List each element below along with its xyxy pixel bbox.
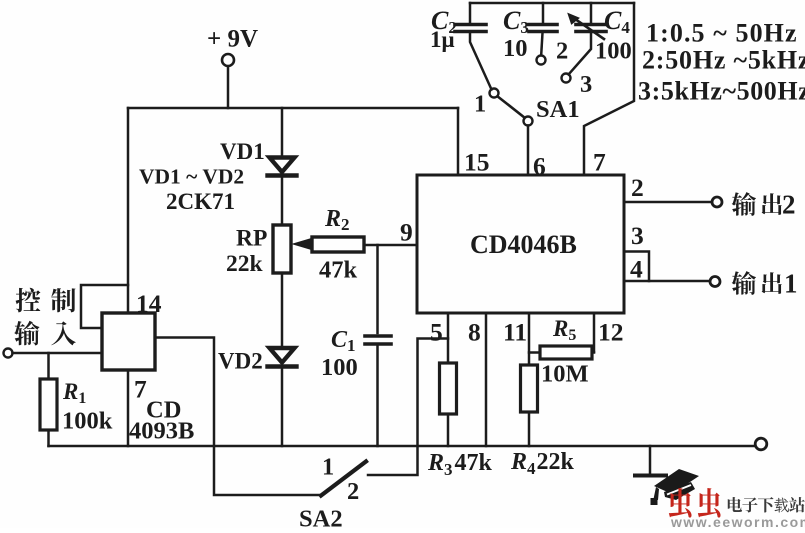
svg-text:10M: 10M <box>541 361 589 388</box>
capacitor C3 10 <box>542 3 545 22</box>
svg-text:RP: RP <box>236 226 267 252</box>
power terminal +9V <box>222 54 234 66</box>
diode VD2 <box>268 348 297 367</box>
wire pin 11 <box>528 313 531 446</box>
capacitor C4 100 (variable) <box>590 3 593 22</box>
capacitor C1 <box>376 245 379 333</box>
svg-text:5: 5 <box>430 318 443 347</box>
svg-text:www.eeworm.com: www.eeworm.com <box>670 514 805 528</box>
svg-text:2: 2 <box>631 173 644 202</box>
wire pin 12 <box>593 313 596 352</box>
svg-text:3: 3 <box>580 71 592 98</box>
wire right side of cap box to pin 7 <box>584 3 634 175</box>
wire R2 to pin 9 <box>364 244 417 247</box>
svg-text:100: 100 <box>321 354 358 381</box>
top capacitor rail <box>470 2 634 5</box>
svg-text:4093B: 4093B <box>129 418 194 445</box>
terminal bottom right <box>755 438 767 450</box>
resistor R4 22k <box>521 365 538 412</box>
wire gate input loop <box>81 285 128 328</box>
svg-text:SA1: SA1 <box>536 96 580 123</box>
wire SA1 pole to pin 6 <box>527 126 530 176</box>
diode VD1 <box>268 158 297 176</box>
svg-text:+ 9V: + 9V <box>207 26 258 53</box>
wire top-left horizontal rail <box>128 107 458 110</box>
svg-text:7: 7 <box>593 148 606 177</box>
watermark chong chong red <box>669 488 692 518</box>
watermark graduation cap <box>651 469 700 505</box>
wire bottom ground rail <box>49 445 756 448</box>
resistor R1 <box>47 353 50 446</box>
svg-text:11: 11 <box>503 318 527 347</box>
svg-text:8: 8 <box>468 318 481 347</box>
wire pin 3 jog <box>624 252 649 282</box>
svg-text:1: 1 <box>322 454 334 481</box>
wire pin5 branch to SA2 contact <box>368 339 448 476</box>
svg-text:1: 1 <box>784 269 798 299</box>
capacitor C2 1u <box>469 3 472 22</box>
svg-text:VD1 ~ VD2: VD1 ~ VD2 <box>139 165 244 189</box>
IC U2 CD4046B <box>417 175 624 313</box>
svg-text:14: 14 <box>136 289 162 318</box>
svg-text:4: 4 <box>630 255 643 284</box>
wire pin 4 to output1 <box>624 280 710 283</box>
gate U1 CD4093B <box>102 313 155 370</box>
terminal output2 <box>712 197 722 207</box>
wire pin 8 <box>485 313 488 446</box>
svg-text:2: 2 <box>556 38 568 65</box>
switch SA1 <box>490 89 499 98</box>
svg-text:CD4046B: CD4046B <box>470 230 577 259</box>
svg-text:22k: 22k <box>226 251 264 277</box>
wire control input to gate <box>13 352 103 355</box>
label output1 (Chinese) <box>732 271 756 295</box>
svg-text:47k: 47k <box>319 257 358 284</box>
wire gate pin 7 to ground rail <box>127 370 130 446</box>
svg-text:1μ: 1μ <box>430 27 455 52</box>
ground <box>649 446 652 474</box>
terminal output1 <box>710 277 720 287</box>
switch SA2 arm <box>321 462 366 496</box>
svg-text:100k: 100k <box>62 408 113 435</box>
svg-text:10: 10 <box>503 35 528 62</box>
wire <box>227 67 230 109</box>
svg-text:R422k: R422k <box>510 449 575 478</box>
svg-text:9: 9 <box>400 218 413 247</box>
wire pin 2 to output2 <box>624 201 712 204</box>
svg-text:2: 2 <box>347 478 359 505</box>
resistor R2 <box>312 237 364 252</box>
svg-text:2:50Hz ~5kHz: 2:50Hz ~5kHz <box>642 46 805 75</box>
svg-text:3: 3 <box>631 221 644 250</box>
wire pin 15 <box>457 108 460 175</box>
svg-text:15: 15 <box>464 148 490 177</box>
svg-text:SA2: SA2 <box>299 506 343 529</box>
svg-text:3:5kHz~500Hz: 3:5kHz~500Hz <box>638 77 805 106</box>
svg-text:2: 2 <box>782 190 796 220</box>
svg-text:1:0.5 ~ 50Hz: 1:0.5 ~ 50Hz <box>646 19 798 48</box>
wire left vertical to pin 14 <box>127 108 130 313</box>
svg-text:100: 100 <box>595 38 632 65</box>
wire center vertical <box>281 108 284 446</box>
wire pin 5 <box>447 313 450 446</box>
resistor R5 10M <box>540 346 592 359</box>
svg-text:1: 1 <box>474 91 486 118</box>
RP wiper arrow <box>293 238 313 250</box>
potentiometer RP 22k <box>273 225 291 273</box>
svg-text:VD1: VD1 <box>220 139 265 164</box>
svg-text:VD2: VD2 <box>218 349 263 374</box>
wire gate output <box>155 338 321 496</box>
resistor R3 47k <box>440 363 457 414</box>
svg-text:6: 6 <box>533 152 546 181</box>
svg-text:R347k: R347k <box>427 450 493 479</box>
watermark site name <box>728 497 742 512</box>
terminal control input <box>4 349 13 358</box>
label output2 (Chinese) <box>732 192 756 216</box>
svg-text:12: 12 <box>598 318 624 347</box>
label control input (Chinese) <box>16 288 41 313</box>
svg-text:2CK71: 2CK71 <box>166 189 235 214</box>
